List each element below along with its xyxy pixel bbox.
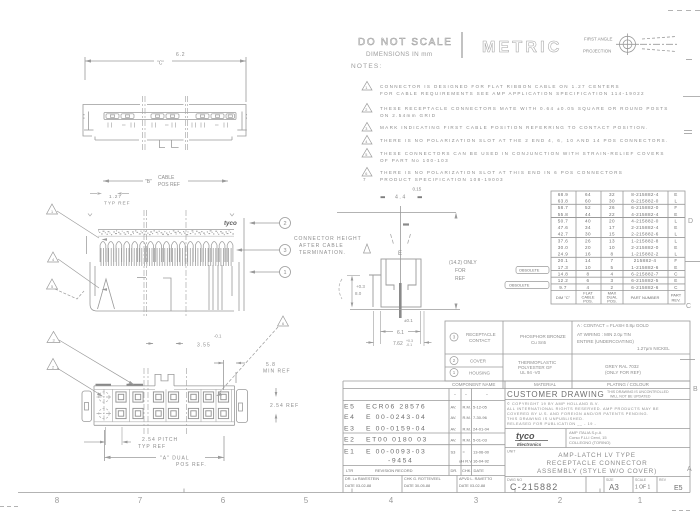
polarization key notch	[155, 374, 174, 386]
svg-text:2-215882-6: 2-215882-6	[631, 232, 659, 237]
svg-text:C: C	[674, 285, 678, 290]
cable top reference line	[337, 212, 456, 214]
svg-text:CONTACT: CONTACT	[469, 338, 491, 343]
svg-text:uH R.V: uH R.V	[459, 459, 472, 464]
svg-text:8.0: 8.0	[355, 291, 362, 296]
sheet border bottom line	[18, 489, 690, 493]
svg-text:17.3: 17.3	[558, 265, 569, 270]
polarization rib (triangle)	[98, 279, 115, 309]
svg-text:THIS DRAWING IS UNCONTROLLED: THIS DRAWING IS UNCONTROLLED	[607, 390, 669, 394]
first-position marks above body	[96, 384, 144, 386]
svg-text:COVER: COVER	[470, 359, 487, 364]
contact (dark bar)	[399, 283, 402, 318]
svg-text:THERE IS NO POLARIZATION SLOT: THERE IS NO POLARIZATION SLOT AT THE 2 E…	[380, 138, 669, 143]
svg-text:E4: E4	[344, 414, 356, 421]
svg-text:DIMENSIONS IN mm: DIMENSIONS IN mm	[366, 51, 433, 58]
svg-text:MATERIAL: MATERIAL	[534, 382, 557, 387]
svg-text:POS.: POS.	[607, 299, 617, 304]
svg-text:NOTES:: NOTES:	[351, 63, 382, 70]
svg-text:58.7: 58.7	[558, 205, 569, 210]
svg-text:A : CONTACT = FLASH 0.8μ GOLD: A : CONTACT = FLASH 0.8μ GOLD	[577, 323, 649, 328]
svg-text:12.2: 12.2	[558, 278, 569, 283]
svg-text:5: 5	[304, 496, 309, 505]
svg-text:24-01-04: 24-01-04	[473, 427, 490, 432]
svg-text:3: 3	[365, 127, 368, 131]
svg-text:F: F	[674, 258, 677, 263]
svg-text:SIZE: SIZE	[606, 478, 614, 482]
dim 2.54 PITCH TYP REF	[138, 437, 178, 450]
svg-text:5: 5	[611, 265, 614, 270]
svg-text:REVISION RECORD: REVISION RECORD	[375, 468, 413, 473]
svg-text:6-215882-6: 6-215882-6	[631, 285, 659, 290]
svg-text:E: E	[674, 225, 677, 230]
svg-text:+0.3: +0.3	[356, 284, 365, 289]
svg-text:15: 15	[609, 232, 615, 237]
svg-text:L: L	[675, 238, 678, 243]
svg-text:50.7: 50.7	[558, 218, 569, 223]
svg-text:E3: E3	[344, 426, 356, 433]
contact strip	[104, 113, 236, 120]
svg-text:13-06-00: 13-06-00	[473, 450, 490, 455]
svg-text:8-215882-0: 8-215882-0	[631, 199, 659, 204]
svg-text:REF: REF	[455, 276, 465, 282]
svg-text:ENTIRE (UNDERCOATING): ENTIRE (UNDERCOATING)	[577, 339, 634, 344]
svg-text:UNIT: UNIT	[507, 450, 516, 454]
contact squares 2 rows	[116, 392, 229, 419]
svg-text:-: -	[486, 392, 488, 398]
svg-text:FOR CABLE REQUIREMENTS SEE AMP: FOR CABLE REQUIREMENTS SEE AMP APPLICATI…	[380, 91, 645, 96]
svg-text:COVERED BY U.S. AND FOREIGN A: COVERED BY U.S. AND FOREIGN AND/OR PATEN…	[507, 412, 649, 416]
svg-text:40: 40	[585, 218, 591, 223]
svg-text:7: 7	[363, 177, 367, 182]
svg-text:E 00-0093-03: E 00-0093-03	[366, 449, 426, 456]
svg-text:1: 1	[638, 496, 643, 505]
note 3	[362, 123, 372, 132]
svg-text:5: 5	[51, 285, 53, 289]
balloons 2,3,1	[280, 218, 291, 229]
callout triangle 6 with dashed leader	[278, 316, 289, 326]
end marks (I-beams and dots)	[84, 112, 247, 131]
svg-text:MIN REF: MIN REF	[263, 369, 291, 375]
dim 1.27 TYP REF	[104, 194, 130, 207]
svg-text:AFTER CABLE: AFTER CABLE	[299, 243, 344, 249]
svg-text:6: 6	[221, 496, 226, 505]
dim "B" CABLE POS REF	[103, 180, 228, 182]
svg-text:2: 2	[365, 108, 368, 112]
svg-text:A3: A3	[609, 483, 619, 492]
svg-text:4: 4	[611, 272, 614, 277]
svg-text:PART NUMBER: PART NUMBER	[631, 295, 660, 300]
svg-text:OBSOLETE: OBSOLETE	[509, 284, 530, 288]
svg-text:3: 3	[474, 496, 479, 505]
svg-text:ON 2.54mm GRID: ON 2.54mm GRID	[380, 113, 436, 118]
break lines front view	[144, 210, 186, 316]
svg-text:1: 1	[453, 370, 456, 375]
svg-text:PRODUCT SPECIFICATION 108-1900: PRODUCT SPECIFICATION 108-19003	[380, 177, 504, 182]
first angle projection symbol	[583, 37, 613, 54]
left end cap	[82, 391, 92, 422]
svg-text:3.55: 3.55	[197, 343, 211, 349]
svg-text:-0.1: -0.1	[214, 334, 222, 339]
svg-text:9.7: 9.7	[559, 285, 567, 290]
svg-text:(ONLY FOR REF): (ONLY FOR REF)	[605, 370, 641, 375]
svg-text:AV.: AV.	[451, 405, 457, 410]
svg-text:C: C	[674, 272, 678, 277]
svg-text:5: 5	[365, 153, 368, 157]
svg-text:E: E	[674, 245, 677, 250]
svg-text:DO NOT SCALE: DO NOT SCALE	[358, 37, 453, 48]
svg-text:55.8: 55.8	[558, 212, 569, 217]
cable centre line	[400, 206, 402, 318]
note 6	[362, 168, 372, 177]
svg-text:© COPYRIGHT 19 BY AMP: © COPYRIGHT 19 BY AMP HOLLAND B.V.	[507, 402, 599, 406]
svg-text:AMP-LATCH LV TYPE: AMP-LATCH LV TYPE	[558, 452, 636, 459]
svg-text:CONNECTOR HEIGHT: CONNECTOR HEIGHT	[294, 236, 362, 242]
svg-text:4: 4	[389, 496, 394, 505]
svg-text:E: E	[674, 278, 677, 283]
tick pairs below strip	[108, 123, 228, 128]
svg-text:POS REF.: POS REF.	[176, 462, 207, 468]
BOTTOM VIEW	[82, 374, 248, 425]
svg-text:DATE 03-02-88: DATE 03-02-88	[345, 484, 371, 488]
svg-text:26: 26	[609, 205, 615, 210]
svg-text:10: 10	[585, 265, 591, 270]
svg-text:E: E	[674, 265, 677, 270]
svg-text:MARK INDICATING FIRST CABLE PO: MARK INDICATING FIRST CABLE POSITION REF…	[380, 125, 649, 130]
svg-text:L: L	[675, 199, 678, 204]
obsolete labels	[505, 267, 549, 289]
svg-text:7: 7	[138, 496, 143, 505]
svg-text:16: 16	[585, 252, 591, 257]
zone numbers bottom	[55, 496, 643, 505]
svg-text:5.8: 5.8	[266, 362, 276, 368]
svg-text:34: 34	[585, 225, 591, 230]
svg-text:DATE 03-02-88: DATE 03-02-88	[459, 484, 485, 488]
svg-text:7: 7	[611, 258, 614, 263]
svg-text:5-01-03: 5-01-03	[473, 438, 488, 443]
svg-text:30.0: 30.0	[558, 245, 569, 250]
svg-text:CHK.: CHK.	[462, 468, 472, 473]
svg-text:2.54 REF: 2.54 REF	[270, 403, 299, 409]
svg-text:47.6: 47.6	[558, 225, 569, 230]
strain relief teeth row	[100, 242, 233, 263]
svg-text:215882-4: 215882-4	[634, 258, 657, 263]
callout triangles left	[47, 204, 58, 214]
svg-text:0.15: 0.15	[413, 187, 422, 192]
svg-text:-9454: -9454	[388, 458, 413, 465]
svg-text:20: 20	[609, 218, 615, 223]
note 2	[362, 104, 372, 113]
svg-text:REV: REV	[659, 478, 667, 482]
svg-text:1: 1	[283, 270, 286, 276]
svg-text:17: 17	[609, 225, 615, 230]
svg-text:E5: E5	[344, 404, 356, 411]
svg-text:R.M.: R.M.	[463, 438, 471, 443]
svg-text:L: L	[675, 232, 678, 237]
svg-text:E1: E1	[344, 449, 356, 456]
svg-text:4: 4	[587, 285, 590, 290]
svg-text:4-215882-0: 4-215882-0	[631, 218, 659, 223]
body outline	[94, 385, 235, 387]
svg-text:4.4: 4.4	[395, 195, 407, 201]
svg-text:DR. Lu RAVESTEIN: DR. Lu RAVESTEIN	[345, 477, 379, 481]
svg-text:Electronics: Electronics	[517, 442, 542, 447]
svg-text:CHK G. ROTTEVEEL: CHK G. ROTTEVEEL	[404, 477, 441, 481]
svg-text:37.6: 37.6	[558, 238, 569, 243]
svg-text:±0.1: ±0.1	[404, 318, 413, 323]
svg-text:30: 30	[585, 232, 591, 237]
svg-text:E 00-0243-04: E 00-0243-04	[366, 414, 426, 421]
svg-text:3: 3	[52, 338, 54, 342]
svg-text:1: 1	[51, 210, 53, 214]
svg-text:COMPONENT NAME: COMPONENT NAME	[452, 382, 495, 387]
svg-text:tyco: tyco	[224, 220, 237, 227]
housing body	[90, 262, 239, 311]
svg-text:6-215882-7: 6-215882-7	[631, 272, 659, 277]
note 1	[362, 82, 372, 91]
svg-text:30: 30	[609, 199, 615, 204]
svg-text:FOR: FOR	[455, 268, 466, 274]
svg-text:LTR: LTR	[346, 468, 353, 473]
svg-text:7-30-96: 7-30-96	[473, 415, 488, 420]
svg-text:E: E	[398, 251, 402, 257]
svg-text:OBSOLETE: OBSOLETE	[519, 269, 540, 273]
svg-text:E: E	[674, 212, 677, 217]
zone letters right edge	[686, 218, 698, 473]
svg-text:8: 8	[587, 272, 590, 277]
centre notch	[163, 278, 171, 311]
right end cap	[237, 390, 248, 423]
svg-text:64: 64	[585, 192, 591, 197]
dims below section	[374, 311, 425, 346]
svg-text:R.M.: R.M.	[463, 415, 471, 420]
svg-text:6-215882-0: 6-215882-0	[631, 205, 659, 210]
svg-text:CUSTOMER DRAWING: CUSTOMER DRAWING	[507, 390, 604, 399]
svg-text:1.27μm NICKEL: 1.27μm NICKEL	[637, 346, 670, 351]
svg-text:THESE CONNECTORS CAN BE USED I: THESE CONNECTORS CAN BE USED IN CONJUNCT…	[380, 151, 665, 156]
svg-text:AV.: AV.	[451, 438, 457, 443]
dim "A" DUAL POS REF	[160, 456, 207, 469]
svg-text:WILL NOT BE UPDATED: WILL NOT BE UPDATED	[610, 395, 651, 399]
svg-text:68.9: 68.9	[558, 192, 569, 197]
svg-text:6: 6	[365, 172, 368, 176]
svg-text:Cu Sn5: Cu Sn5	[531, 340, 547, 345]
svg-text:13: 13	[609, 238, 615, 243]
svg-text:TYP REF: TYP REF	[138, 444, 166, 450]
svg-text:24.9: 24.9	[558, 252, 569, 257]
svg-text:63.8: 63.8	[558, 199, 569, 204]
svg-text:POS.: POS.	[583, 299, 593, 304]
svg-text:B: B	[693, 386, 698, 393]
svg-text:tyco: tyco	[516, 431, 535, 441]
BOTTOM TITLE BLOCK	[343, 381, 690, 493]
svg-text:4: 4	[365, 140, 368, 144]
svg-text:5-12-05: 5-12-05	[473, 405, 488, 410]
rib lines right group	[209, 265, 222, 310]
bottom reference line	[350, 309, 460, 311]
svg-text:44: 44	[585, 212, 591, 217]
dim 6.2 "C"	[85, 60, 154, 62]
svg-text:A: A	[687, 466, 692, 473]
14.2 dim arrows	[455, 213, 458, 219]
svg-text:60: 60	[585, 199, 591, 204]
cable band	[98, 229, 234, 231]
svg-text:26: 26	[585, 238, 591, 243]
svg-text:52: 52	[585, 205, 591, 210]
svg-text:AT WIRING : MIN 2.0μ TIN: AT WIRING : MIN 2.0μ TIN	[577, 332, 631, 337]
svg-text:TYP REF: TYP REF	[104, 201, 130, 207]
note 5	[362, 149, 372, 158]
svg-text:RECEPTACLE CONNECTOR: RECEPTACLE CONNECTOR	[547, 460, 648, 467]
8.0 +0.3 dim	[355, 284, 365, 296]
svg-text:METRIC: METRIC	[482, 39, 563, 56]
svg-text:AV.: AV.	[451, 415, 457, 420]
cavity walls	[113, 389, 232, 422]
TOP VIEW of connector	[85, 57, 246, 102]
svg-text:S3: S3	[451, 450, 457, 455]
svg-text:-0.1: -0.1	[406, 343, 412, 347]
svg-text:PLATING / COLOUR: PLATING / COLOUR	[607, 382, 650, 387]
svg-text:UL 94 -V0: UL 94 -V0	[520, 370, 541, 375]
inner body edges	[94, 389, 235, 422]
svg-text:10: 10	[609, 245, 615, 250]
svg-text:3: 3	[611, 278, 614, 283]
svg-text:1.27: 1.27	[109, 194, 122, 200]
svg-text:E5: E5	[674, 485, 683, 492]
svg-text:4: 4	[52, 258, 54, 262]
svg-text:REV.: REV.	[672, 298, 681, 303]
svg-text:E2: E2	[344, 437, 356, 444]
callout triangle 2 (left, to mating post)	[47, 359, 59, 370]
svg-text:42.7: 42.7	[558, 232, 569, 237]
svg-text:1-215882-2: 1-215882-2	[631, 252, 659, 257]
mounting tabs	[159, 140, 165, 148]
svg-text:R.M.: R.M.	[463, 405, 471, 410]
svg-text:F: F	[674, 205, 677, 210]
conductors under teeth	[101, 248, 231, 266]
svg-text:6.1: 6.1	[397, 330, 404, 336]
svg-text:ASSEMBLY (STYLE W/O COVER): ASSEMBLY (STYLE W/O COVER)	[537, 468, 657, 475]
break lines	[143, 96, 188, 151]
svg-text:AV.: AV.	[451, 427, 457, 432]
svg-text:2: 2	[611, 285, 614, 290]
svg-text:L: L	[675, 252, 678, 257]
svg-text:14: 14	[585, 258, 591, 263]
svg-text:E: E	[674, 192, 677, 197]
dim 5.8 MIN REF	[263, 362, 291, 375]
note 4	[362, 136, 372, 145]
svg-text:CONNECTOR IS DESIGNED FOR FLAT: CONNECTOR IS DESIGNED FOR FLAT RIBBON CA…	[380, 84, 620, 89]
svg-text:8-215882-4: 8-215882-4	[631, 192, 659, 197]
svg-text:6: 6	[282, 322, 284, 326]
housing section outline	[369, 259, 421, 307]
connector height note	[294, 236, 362, 256]
MATERIAL / FINISH TABLE	[445, 321, 690, 389]
svg-text:DIM "C": DIM "C"	[556, 295, 571, 300]
svg-text:-: -	[465, 392, 467, 398]
svg-text:2: 2	[453, 358, 456, 363]
svg-text:7.62: 7.62	[393, 341, 403, 347]
svg-text:=: =	[463, 450, 466, 455]
svg-text:"A" DUAL: "A" DUAL	[160, 456, 190, 462]
svg-text:6: 6	[587, 278, 590, 283]
svg-text:TERMINATION.: TERMINATION.	[299, 250, 346, 256]
svg-text:2.54 PITCH: 2.54 PITCH	[142, 437, 178, 443]
svg-text:2-215882-4: 2-215882-4	[631, 225, 659, 230]
svg-text:20.1: 20.1	[558, 258, 569, 263]
svg-text:CABLE: CABLE	[158, 175, 175, 181]
svg-text:3: 3	[453, 335, 456, 340]
svg-text:L: L	[675, 218, 678, 223]
svg-text:THESE RECEPTACLE CONNECTORS MA: THESE RECEPTACLE CONNECTORS MATE WITH 0.…	[380, 106, 669, 111]
svg-text:COLLEGNO (TORINO): COLLEGNO (TORINO)	[569, 440, 611, 445]
svg-text:POS REF: POS REF	[158, 182, 180, 188]
svg-text:6-215882-5: 6-215882-5	[631, 278, 659, 283]
svg-text:2-215882-0: 2-215882-0	[631, 245, 659, 250]
svg-text:"B": "B"	[145, 179, 152, 185]
svg-text:1-215882-8: 1-215882-8	[631, 238, 659, 243]
break lines bottom view	[144, 368, 187, 434]
svg-text:PROJECTION: PROJECTION	[583, 49, 611, 54]
svg-text:2: 2	[558, 496, 563, 505]
dashed circles first column	[97, 390, 112, 422]
revision table lines	[343, 400, 505, 402]
svg-text:GREY RAL 7032: GREY RAL 7032	[605, 364, 639, 369]
svg-text:"C": "C"	[157, 61, 164, 67]
svg-text:HOUSING: HOUSING	[469, 371, 491, 376]
svg-text:D: D	[688, 218, 693, 225]
customer drawing header	[505, 399, 690, 401]
svg-text:OF PART No 100-103: OF PART No 100-103	[380, 158, 449, 163]
svg-text:ECR06 28576: ECR06 28576	[366, 404, 426, 411]
svg-text:THERE IS NO POLARIZATION SLOT: THERE IS NO POLARIZATION SLOT AT THIS EN…	[380, 170, 623, 175]
svg-text:3: 3	[283, 248, 286, 254]
svg-text:(14.2) ONLY: (14.2) ONLY	[449, 260, 477, 266]
svg-text:32: 32	[609, 192, 615, 197]
svg-text:DATE 30-05-88: DATE 30-05-88	[404, 484, 430, 488]
svg-text:E 00-0159-04: E 00-0159-04	[366, 426, 426, 433]
svg-text:RELEASED FOR PUBLICATION __: RELEASED FOR PUBLICATION __ - 19 -	[507, 422, 596, 426]
svg-text:16-04-92: 16-04-92	[473, 459, 490, 464]
svg-text:2: 2	[283, 221, 286, 227]
svg-text:1 OF 1: 1 OF 1	[635, 485, 651, 491]
svg-text:2: 2	[52, 365, 54, 369]
svg-text:RECEPTACLE: RECEPTACLE	[466, 332, 496, 337]
top view outline	[83, 105, 246, 141]
svg-text:DATE: DATE	[474, 468, 485, 473]
svg-text:FIRST ANGLE: FIRST ANGLE	[584, 37, 613, 42]
svg-text:1-215882-6: 1-215882-6	[631, 265, 659, 270]
svg-text:SCALE: SCALE	[635, 478, 647, 482]
svg-text:APVD L. RAVETTO: APVD L. RAVETTO	[459, 477, 492, 481]
svg-text:6.2: 6.2	[176, 52, 185, 58]
svg-text:-: -	[454, 392, 456, 398]
svg-text:4-215882-4: 4-215882-4	[631, 212, 659, 217]
svg-text:ALL INTERNATIONAL RIGHTS RESER: ALL INTERNATIONAL RIGHTS RESERVED. AMP P…	[507, 407, 659, 411]
svg-text:THIS DRAWING IS UNPUBLISHED.: THIS DRAWING IS UNPUBLISHED.	[507, 417, 584, 421]
svg-text:ET00 0180 03: ET00 0180 03	[366, 437, 428, 444]
PARTS TABLE	[551, 191, 685, 304]
svg-text:DR.: DR.	[451, 468, 458, 473]
svg-text:C: C	[686, 303, 691, 310]
svg-text:1: 1	[365, 86, 368, 90]
callout triangle 3 (left, to first pos mark)	[47, 332, 60, 343]
svg-text:8: 8	[55, 496, 60, 505]
svg-text:14.8: 14.8	[558, 272, 569, 277]
svg-text:8: 8	[611, 252, 614, 257]
svg-text:PHOSPHOR BRONZE: PHOSPHOR BRONZE	[520, 334, 566, 339]
svg-text:20: 20	[585, 245, 591, 250]
